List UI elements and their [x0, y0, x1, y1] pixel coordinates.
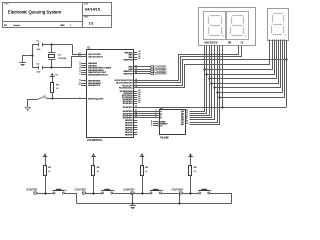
- wire OSC1 to U1 pin 13: [73, 45, 87, 55]
- svg-text:1k: 1k: [145, 171, 147, 173]
- svg-text:R2: R2: [48, 167, 52, 169]
- svg-text:Roland: Roland: [14, 25, 20, 27]
- push button SW4: [198, 189, 211, 194]
- author name Roland: [14, 25, 20, 27]
- junction crystal bottom: [50, 66, 52, 68]
- svg-text:COUNTER2: COUNTER2: [75, 188, 87, 192]
- svg-text:COUNTER4: COUNTER4: [155, 74, 167, 76]
- svg-text:QG: QG: [181, 124, 185, 126]
- resistor R1 1k: [51, 76, 60, 99]
- page number 1/1: [89, 21, 94, 25]
- dual display digit 1 segments: [209, 16, 224, 37]
- port COUNTER1 (bottom): [26, 188, 38, 194]
- svg-text:COUNTER3: COUNTER3: [123, 188, 135, 192]
- port COUNTER4 (bottom): [172, 188, 184, 194]
- wire ground rail (bottom): [77, 203, 232, 205]
- resistor R4 10k: [141, 157, 149, 193]
- revision number 1: [70, 25, 72, 27]
- wire segment C bus (display pin to U2 QC): [190, 46, 210, 116]
- svg-text:ABCDEFG: ABCDEFG: [204, 42, 218, 45]
- svg-text:REV: REV: [61, 25, 66, 27]
- single 7-segment display box: [268, 9, 289, 41]
- wire button 2 to ground rail: [113, 194, 133, 204]
- power +5V (R5): [188, 153, 192, 157]
- wire port to node 1: [38, 192, 54, 194]
- single display segments: [272, 14, 286, 36]
- wire+port COUNTER4 at U1: [134, 73, 167, 76]
- wire segment G branch to single display: [218, 40, 284, 99]
- power +5V (reset): [50, 73, 58, 77]
- wire switch to ground: [28, 100, 37, 107]
- wire ground stub: [23, 56, 33, 61]
- svg-text:RA5/AN4/SS/C2OUT: RA5/AN4/SS/C2OUT: [88, 73, 108, 76]
- switch SW-reset: [36, 96, 52, 100]
- title block label REV: [61, 25, 66, 27]
- label U2: [160, 108, 164, 110]
- power +5V (R2): [43, 153, 47, 157]
- svg-text:3: 3: [151, 125, 152, 127]
- svg-text:RD/PSP: RD/PSP: [125, 135, 133, 137]
- decoder U2 box: [160, 110, 186, 135]
- U2 right pins and labels: [181, 110, 189, 126]
- U1 left pins and labels: [78, 53, 112, 101]
- wire port to node 3: [135, 192, 151, 194]
- svg-text:Electronic Queuing System: Electronic Queuing System: [8, 10, 62, 15]
- svg-text:TITLE: TITLE: [4, 4, 8, 6]
- wire segment F bus (display pin to U2 QF): [190, 46, 218, 123]
- dual 7-segment display box: [199, 8, 256, 46]
- wire segment D bus (display pin to U2 QD): [190, 46, 212, 118]
- wire RD3 to displays DP/common (net W5): [134, 40, 288, 109]
- wire segment F branch to single display: [216, 40, 282, 94]
- svg-text:7: 7: [79, 73, 80, 75]
- dual display digit box 1: [204, 12, 226, 40]
- wire+port COUNTER1 at U1: [134, 66, 167, 69]
- svg-text:1k: 1k: [194, 171, 196, 173]
- schematic title text: [8, 10, 62, 15]
- svg-text:1k: 1k: [97, 171, 99, 173]
- wire segment E bus (display pin to U2 QE): [190, 46, 215, 120]
- svg-text:COUNTER4: COUNTER4: [172, 188, 184, 192]
- wire digit1 common (RC0 to dual display pin 1): [134, 46, 239, 81]
- power +5V (R4): [140, 153, 144, 157]
- wire U1 to U2 input A: [134, 111, 160, 113]
- dual display pin labels text: [204, 42, 244, 45]
- wire segment D branch to single display: [210, 40, 278, 85]
- label U1: [87, 48, 91, 50]
- svg-text:74LS48: 74LS48: [160, 136, 169, 139]
- wire digit3 common (RC2 to single display): [134, 60, 287, 86]
- svg-text:R1: R1: [56, 84, 60, 86]
- wire U1 to U2 input D: [134, 117, 160, 119]
- wire oscillator left rail: [32, 45, 34, 68]
- junction ground rail at drop3: [178, 202, 180, 204]
- capacitor C2 22pF: [37, 63, 43, 73]
- ground (oscillator): [19, 61, 25, 66]
- wire button 4 to ground rail: [210, 194, 232, 204]
- ground (button rail): [130, 204, 136, 209]
- wire U1 to U2 input C: [134, 115, 160, 117]
- wire port to node 2: [86, 192, 102, 194]
- svg-text:R3: R3: [97, 167, 101, 169]
- microcontroller U1 box: [87, 50, 134, 138]
- dual display digit 2 segments: [231, 16, 247, 37]
- title block label TITLE: [4, 4, 8, 6]
- resistor R2 10k: [44, 157, 52, 193]
- title block label PAGE: [84, 16, 88, 19]
- junction ground rail at drop2: [131, 202, 133, 204]
- wire+port COUNTER3 at U1: [134, 70, 167, 73]
- port COUNTER2 (bottom): [75, 188, 87, 194]
- svg-text:12: 12: [240, 43, 244, 45]
- svg-text:22pF: 22pF: [37, 49, 41, 51]
- label 74LS48: [160, 136, 169, 139]
- svg-text:10: 10: [78, 84, 80, 86]
- capacitor C1 22pF: [37, 40, 43, 51]
- push button SW3: [150, 189, 163, 194]
- wire crystal bottom rail: [32, 67, 71, 69]
- wire+port COUNTER2 at U1: [134, 68, 167, 71]
- svg-text:1/1: 1/1: [89, 21, 94, 25]
- svg-text:22pF: 22pF: [37, 72, 41, 74]
- svg-text:+5V: +5V: [54, 75, 58, 77]
- title block label DATE: [84, 3, 88, 6]
- svg-text:R5: R5: [194, 167, 198, 169]
- svg-text:1k: 1k: [48, 171, 50, 173]
- crystal X1: [48, 45, 66, 68]
- svg-text:DP: DP: [228, 43, 232, 45]
- power +5V (R3): [91, 153, 95, 157]
- svg-text:RB7/PGD: RB7/PGD: [124, 73, 134, 75]
- svg-text:RC1/T1OSI/CCP2: RC1/T1OSI/CCP2: [116, 82, 133, 84]
- wire port to node 4: [183, 192, 199, 194]
- wire segment G bus (display pin to U2 QG): [190, 46, 220, 125]
- svg-text:C2: C2: [37, 63, 40, 65]
- date 04/14/15: [85, 8, 100, 12]
- junction MCLR node: [51, 97, 53, 99]
- svg-text:36: 36: [138, 58, 140, 60]
- wire MCLR node to U1 pin 1: [52, 98, 86, 100]
- wire digit4 common (RC3 to single display left pin): [134, 40, 270, 88]
- push button SW2: [101, 189, 114, 194]
- svg-text:14: 14: [186, 122, 189, 125]
- wire segment C branch to single display: [208, 40, 276, 80]
- wire segment B branch to single display: [205, 40, 274, 76]
- svg-text:1k: 1k: [56, 88, 58, 90]
- title block label BY: [4, 25, 7, 27]
- wire segment A bus (display pin to U2 QA): [190, 46, 205, 112]
- ground (reset switch): [25, 106, 30, 111]
- svg-text:CRYSTAL: CRYSTAL: [58, 57, 67, 60]
- U2 left pins and labels: [151, 110, 168, 128]
- label PIC16F877A: [87, 138, 102, 142]
- U1 right pins and labels: [115, 51, 142, 136]
- wire OSC2 to U1 pin 14: [72, 57, 87, 68]
- resistor R5 10k: [189, 157, 198, 193]
- svg-text:RC3/SCK/SCL: RC3/SCK/SCL: [119, 87, 133, 89]
- wire button 3 to ground rail: [162, 194, 180, 204]
- title block: [3, 2, 112, 27]
- svg-text:RB3/PGM: RB3/PGM: [123, 59, 133, 61]
- port COUNTER3 (bottom): [123, 188, 135, 194]
- wire segment A branch to single display: [203, 40, 272, 71]
- svg-text:PIC16F877A: PIC16F877A: [87, 138, 102, 142]
- svg-text:RD2/PSP2: RD2/PSP2: [123, 103, 134, 105]
- svg-text:C1: C1: [37, 40, 40, 42]
- dual display digit box 2: [227, 12, 249, 40]
- wire button 1 to ground rail: [65, 194, 77, 204]
- wire segment E branch to single display: [213, 40, 280, 89]
- svg-text:X1: X1: [58, 55, 61, 57]
- push button SW1: [53, 189, 66, 194]
- resistor R3 10k: [92, 157, 101, 193]
- junction oscillator ground tee: [31, 54, 33, 56]
- wire crystal top rail: [32, 44, 72, 46]
- junction crystal top: [50, 43, 52, 45]
- svg-text:21: 21: [138, 102, 140, 104]
- svg-text:RD3/PSP3: RD3/PSP3: [123, 107, 134, 109]
- svg-text:OSC2/CLKOUT: OSC2/CLKOUT: [88, 57, 103, 59]
- wire U1 to U2 input B: [134, 113, 160, 115]
- svg-text:RE2/AN7/CS: RE2/AN7/CS: [88, 84, 101, 87]
- svg-text:1: 1: [79, 97, 80, 99]
- svg-text:04/14/15: 04/14/15: [85, 8, 100, 12]
- wire segment B bus (display pin to U2 QB): [190, 46, 207, 114]
- svg-text:R4: R4: [145, 167, 149, 169]
- svg-text:MCLR/Vpp/THV: MCLR/Vpp/THV: [88, 99, 104, 101]
- wire digit2 common (RC1 to dual display pin 2): [134, 46, 242, 83]
- svg-text:COUNTER1: COUNTER1: [26, 188, 38, 192]
